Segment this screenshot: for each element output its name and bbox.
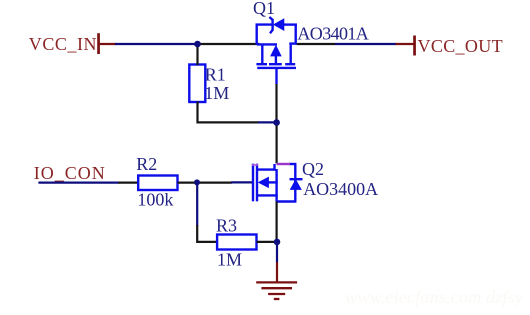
svg-text:VCC_IN: VCC_IN <box>29 34 97 54</box>
wire R3 right to node J4 <box>257 241 278 243</box>
resistor R3 body <box>217 235 256 250</box>
wire J3 to Q2 gate navy segment <box>231 181 253 183</box>
port VCC_OUT bar <box>413 36 416 56</box>
wire R1 bottom to node J2 <box>198 102 260 123</box>
svg-text:100k: 100k <box>137 190 173 210</box>
svg-text:Q1: Q1 <box>253 0 275 18</box>
svg-text:AO3401A: AO3401A <box>297 23 368 43</box>
wire Q1 gate down to node J2 <box>275 84 277 122</box>
svg-text:AO3400A: AO3400A <box>303 179 378 199</box>
wire VCC rail black segment to Q1 <box>197 43 260 45</box>
svg-text:R3: R3 <box>216 215 237 235</box>
ground symbol <box>256 282 297 299</box>
resistor R1 body <box>189 65 205 103</box>
wire VCC_IN navy segment <box>115 43 198 45</box>
svg-text:R2: R2 <box>136 154 157 174</box>
svg-text:www.elecfans.com dzfsy: www.elecfans.com dzfsy <box>345 287 523 307</box>
port VCC_IN bar <box>97 33 100 54</box>
wire J3 down navy segment <box>196 182 198 226</box>
wire IO_CON black segment to R2 <box>118 182 139 184</box>
wire VCC_OUT red stub <box>396 43 414 45</box>
node junction J3 (R2 / R3 / Q2 gate) <box>194 179 200 185</box>
wire J3 down black corner to R3 <box>197 225 218 242</box>
svg-text:1M: 1M <box>204 83 229 103</box>
svg-text:1M: 1M <box>217 249 242 269</box>
svg-text:R1: R1 <box>205 64 226 84</box>
resistor R2 body <box>138 176 177 191</box>
wire Q2 drain top rail purple artifact segment <box>277 163 291 165</box>
transistor Q2 N-MOSFET symbol <box>253 164 303 202</box>
wire J3 to Q2 gate black segment <box>197 182 232 184</box>
node junction J2 (Q1 gate / R1 / Q2 drain) <box>273 119 280 126</box>
node junction J4 (Q2 source / R3 / GND) <box>274 239 281 246</box>
node junction J1 (VCC_IN / R1 / Q1) <box>194 41 201 48</box>
wire VCC_IN red stub <box>99 43 116 45</box>
wire IO_CON navy segment <box>38 182 119 184</box>
transistor Q1 P-MOSFET symbol <box>256 17 297 84</box>
wire J4 down navy segment <box>276 242 278 263</box>
wire Q2 gate bar top purple artifact tick <box>252 164 258 166</box>
wire J2 down to Q2 drain <box>276 122 278 163</box>
wire R1 bottom navy segment to J2 <box>258 121 275 123</box>
wire J1 to R1 top <box>196 44 198 65</box>
svg-text:Q2: Q2 <box>302 159 324 179</box>
svg-text:IO_CON: IO_CON <box>34 163 106 183</box>
svg-text:VCC_OUT: VCC_OUT <box>418 36 503 56</box>
wire black segment right of Q1 <box>297 43 336 45</box>
wire navy segment to VCC_OUT <box>335 43 397 45</box>
wire Q2 source down to node J4 <box>276 202 278 243</box>
wire ground stem red segment <box>276 262 278 282</box>
wire R2 right to node J3 <box>178 182 199 184</box>
